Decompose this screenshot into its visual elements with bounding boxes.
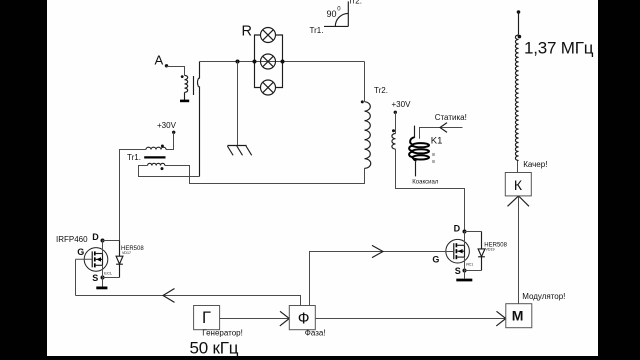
+30V terminal dot left [172,131,175,134]
lamp bank left bracket [255,35,261,88]
wire diode bottom to source Q1 [103,277,120,279]
wire Tr1 bottom winding left to single-turn winding [139,166,200,177]
wire rail to chassis ground [237,62,239,146]
wire source Q2 down [464,257,466,278]
left letterbox bar [0,0,47,360]
node S Q2 dot [463,269,467,273]
wire K1 left winding to drain of Q2 [396,149,465,231]
transistor Q1 IRFP460 [84,248,113,276]
wire Tr1 bottom winding right to Tr2 bottom [165,166,365,184]
svg-text:Ф: Ф [298,310,310,327]
kacher block K [505,173,531,196]
node D Q1 dot [101,239,105,243]
wire D node to diode VD17 [103,240,120,242]
svg-text:R: R [242,23,252,39]
junction dot left bracket [253,60,257,64]
antenna transformer single-turn winding [198,62,200,177]
svg-text:Статика!: Статика! [435,113,467,122]
wire +30V down to K1 left winding [395,112,397,133]
wire G to F [220,318,290,320]
phase diagram 90 deg between Tr1 and Tr2 [310,0,362,35]
svg-text:G: G [432,254,439,264]
node S Q1 dot [101,276,105,280]
generator block G [194,306,220,330]
coil K1 top lead [414,126,416,138]
wire source Q1 down [102,265,104,286]
lamp HL1 [261,28,276,43]
coil K1 helix [409,137,429,160]
svg-text:S: S [455,266,461,276]
svg-text:90: 90 [327,9,337,19]
svg-text:Качер!: Качер! [523,160,547,169]
phase block F [289,306,315,330]
Tr2 winding phase dot [361,100,364,103]
svg-text:VD17: VD17 [122,251,131,255]
svg-text:Tr2.: Tr2. [374,86,388,95]
svg-text:Tr1.: Tr1. [310,26,324,35]
svg-text:Tr2.: Tr2. [348,0,362,6]
transformer Tr1 top winding [146,147,166,149]
arrowhead into M [496,311,506,326]
svg-text:Генератор!: Генератор! [202,328,243,337]
svg-text:Фаза!: Фаза! [305,329,326,338]
relay K1 left winding [392,134,396,150]
secondary coil terminal dot top [517,10,521,14]
wire gate Q1 [76,258,93,260]
+30V terminal dot right [394,111,397,114]
wire +30V to Tr1 top winding [166,132,174,149]
wire coil top terminal [518,12,520,35]
modulator block M [506,304,532,328]
coil K1 bottom lead [415,162,417,177]
svg-text:ИС1: ИС1 [466,263,473,267]
transistor Q2 IRFP460 [446,239,473,266]
Tr1 bottom winding phase dot [161,167,164,170]
svg-text:A: A [155,53,164,68]
svg-text:G: G [77,247,84,257]
svg-text:К: К [514,177,523,193]
diode VD17 HER508 [116,241,123,278]
svg-text:D: D [92,232,99,242]
bottom letterbox bar [0,356,640,360]
svg-text:IRFP460: IRFP460 [56,235,88,244]
wire from node A to antenna coupling coil [167,67,185,76]
svg-text:+30V: +30V [392,100,412,109]
wire feedback line to phase block [76,296,301,306]
lamp HL3 [261,80,276,95]
svg-text:М: М [512,307,524,323]
top rail wire [200,61,365,63]
chassis ground [227,146,251,156]
Tr1 core [144,156,165,158]
inductor secondary coil 1.37 MHz [515,35,518,160]
node A label and dot [155,53,169,68]
svg-text:1,37 МГц: 1,37 МГц [524,39,594,58]
svg-text:Tr1.: Tr1. [127,153,141,162]
Tr1 top winding phase dot [161,145,164,148]
wire M up to K [518,196,520,304]
wire Tr1 top winding to drain of Q1 [120,150,147,241]
ground bar Q1 source [96,286,107,289]
diode VD19 HER508 [478,232,485,271]
svg-text:VD19: VD19 [486,247,495,251]
wire Statika arrow to K1 coil top [420,128,463,139]
wire rail down to Tr2 primary [364,62,366,102]
lamp bank right bracket [276,35,283,88]
ground bar Q2 source [456,279,472,282]
right letterbox bar [598,0,640,360]
antenna transformer core [193,76,195,95]
svg-text:K1: K1 [431,136,443,147]
wire K top to secondary coil [517,161,519,173]
svg-text:Модулятор!: Модулятор! [522,292,565,301]
arrowhead gate drive pointing right [372,245,383,257]
wire drain node Q1 [102,241,104,254]
wire F to M [315,318,506,320]
wire gate Q1 feedback down [75,259,77,295]
K1 left winding phase dot [392,129,395,132]
junction dot rail/ground drop [236,60,240,64]
svg-text:Коаксиал: Коаксиал [412,179,439,185]
wire D node to diode VD19 [465,231,482,233]
svg-text:+30V: +30V [157,121,177,130]
svg-text:D: D [454,223,461,233]
wire drain node Q2 [464,232,466,246]
arrowhead Statika pointing left [440,123,447,133]
svg-text:Г: Г [202,309,211,327]
wire gate drive to Q2 from phase block [310,252,454,306]
svg-text:50 кГц: 50 кГц [190,339,239,358]
transformer Tr1 bottom winding [148,163,165,165]
secondary coil top dot [518,35,522,39]
transformer Tr2 winding [365,102,371,169]
arrowhead into F [280,311,290,326]
arrowhead into K [508,196,530,206]
junction dot right bracket [281,60,285,64]
svg-text:ECL: ECL [104,271,113,276]
svg-text:S: S [92,273,98,283]
node D Q2 dot [463,230,467,234]
ground bar under antenna coil [180,100,189,103]
arrowhead feedback pointing left [163,289,175,303]
lamp HL2 [261,54,276,69]
antenna coupling transformer left winding [181,75,188,100]
wire diode bottom to source Q2 [465,270,482,272]
